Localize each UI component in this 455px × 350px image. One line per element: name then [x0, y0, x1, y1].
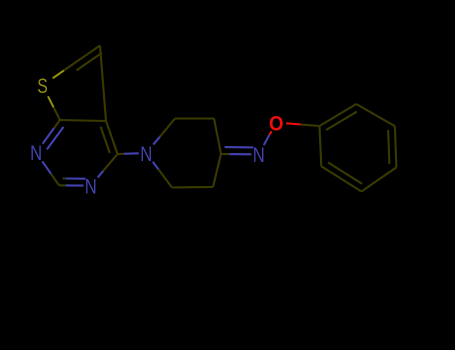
- bond C7a-S (thiophene): [54, 107, 61, 120]
- svg-text:N: N: [30, 141, 42, 165]
- bond N-O (oxime): [264, 135, 270, 145]
- svg-text:S: S: [37, 74, 48, 98]
- double bond C7a=N1 (pyrimidine): [54, 120, 60, 128]
- double bond C4=C4a (pyrimidine): [112, 138, 118, 155]
- bond C4'-C5' (piperidine): [217, 154, 221, 171]
- svg-text:N: N: [140, 142, 152, 166]
- bond S-C6 (thiophene): [53, 70, 64, 78]
- svg-text:N: N: [253, 143, 265, 167]
- bond C5-C4a (thiophene): [100, 46, 103, 84]
- bond N3-C4 (pyrimidine): [98, 171, 104, 178]
- bond C5'-C6' (piperidine): [193, 186, 214, 188]
- bond C3'-C4' (piperidine): [214, 119, 218, 137]
- svg-text:O: O: [269, 111, 284, 135]
- bond N1'-C2' (piperidine): [153, 137, 160, 145]
- bond C4-C5 (phenyl): [379, 167, 397, 179]
- bond C6-C1 (phenyl): [319, 146, 322, 166]
- double bond C2=N3 (pyrimidine): [59, 184, 66, 186]
- bond N1-C2 (pyrimidine): [42, 161, 51, 174]
- bond C2-C3 (phenyl): [356, 104, 375, 115]
- double bond C3=C4 (phenyl): [394, 126, 397, 147]
- double bond C1=C2 (phenyl): [320, 115, 338, 126]
- double bond C5=C6 (phenyl): [341, 179, 361, 192]
- svg-text:N: N: [85, 175, 97, 199]
- fusion bond C4a-C7a: [83, 119, 106, 122]
- bond C4-N1' (to piperidine): [118, 153, 124, 155]
- oxime double bond C4'=N: [221, 153, 229, 155]
- bond C6'-N1' (piperidine): [158, 169, 172, 187]
- bond O-C1 (to phenyl): [286, 123, 301, 124]
- bond C2'-C3' (piperidine): [175, 117, 195, 119]
- double bond C6=C5 (thiophene): [74, 55, 87, 64]
